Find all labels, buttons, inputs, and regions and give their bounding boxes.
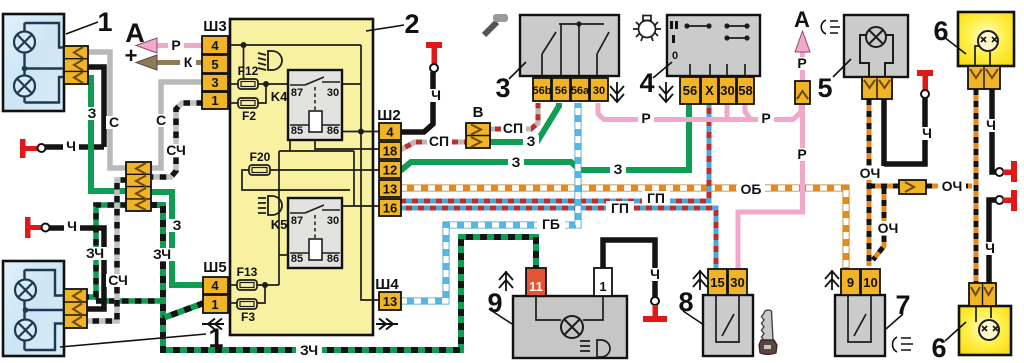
- svg-text:2: 2: [404, 9, 419, 39]
- wire label Z (to Sh5-4): [169, 217, 185, 233]
- lamp L1a (outer bulb, top-left block): [14, 32, 35, 53]
- wire: Ch black, ground G6 to lamp 6 bottom: [989, 200, 996, 283]
- wire: R pink spur from pin 58: [727, 104, 751, 120]
- wire label Z (long green, first): [508, 154, 524, 170]
- symbol: harness branch at ignition switch 8: [693, 270, 707, 290]
- wire label GB: [537, 216, 565, 232]
- wire label ZCh (bottom run): [296, 342, 322, 358]
- svg-text:30: 30: [593, 85, 605, 97]
- svg-text:1: 1: [211, 93, 218, 108]
- svg-text:87: 87: [291, 215, 303, 227]
- svg-text:16: 16: [383, 201, 397, 216]
- svg-text:10: 10: [863, 275, 877, 290]
- icon: ignition key: [759, 310, 777, 355]
- icon: side light symbol right of 7: [893, 337, 914, 352]
- wire: SCh gray-black, junction cell2 to bottom headlamp pin3: [87, 180, 127, 321]
- wire: Ch black, lamp 6 top to ground G5: [992, 89, 996, 172]
- wire: Z green, connector B to switch3 pin 56: [489, 103, 559, 142]
- connector: lamp 6 bottom 2-pin: [969, 283, 996, 306]
- svg-text:30: 30: [327, 215, 339, 227]
- wire label R (below connector): [794, 146, 810, 162]
- internal link: supply rail from pin Sh3-4: [228, 44, 361, 46]
- svg-text:Ч: Ч: [985, 240, 995, 256]
- node: lamp common point: [22, 66, 28, 72]
- symbol: harness branch at fog lamp 9: [499, 271, 513, 291]
- svg-text:Р: Р: [797, 55, 806, 71]
- connector Sh4 (pin 13): [379, 292, 401, 310]
- wire label C (right vertical): [153, 112, 169, 128]
- wire: Z green, Sh2-12 to light switch 4 pin 56: [400, 103, 689, 171]
- wire label Ch (fog lamp ground): [647, 266, 663, 282]
- svg-text:Ч: Ч: [922, 125, 932, 141]
- icon: column stalk lever: [484, 14, 508, 35]
- wire label R (pink bus left): [638, 110, 654, 126]
- svg-text:F3: F3: [241, 310, 255, 324]
- svg-text:13: 13: [383, 182, 397, 197]
- svg-text:30: 30: [720, 83, 734, 98]
- svg-text:18: 18: [383, 144, 397, 159]
- label 9 pointer: [489, 309, 512, 324]
- label 1 pointer (top block): [66, 22, 98, 34]
- connector 1 of fog lamp 9: [594, 268, 612, 296]
- svg-text:6: 6: [933, 16, 948, 46]
- marker lamp 5 body: [844, 15, 908, 77]
- svg-text:С: С: [156, 112, 166, 128]
- svg-text:1: 1: [599, 279, 606, 294]
- wire: F20 left loop down and across: [242, 170, 350, 190]
- wire: Sh5-4 to F13: [228, 284, 237, 286]
- svg-text:З: З: [614, 161, 623, 177]
- icon: high-beam headlamp symbol: [258, 196, 282, 215]
- svg-text:85: 85: [291, 253, 303, 265]
- relay K5: [271, 198, 342, 268]
- svg-text:СЧ: СЧ: [108, 272, 128, 288]
- wire: R pink arrow shaft up to A: [800, 48, 805, 82]
- wire: R pink, connector A down to ignition switch 8 pin 30: [738, 103, 803, 269]
- svg-text:12: 12: [383, 163, 397, 178]
- wire: Sh5-1 to F3: [228, 302, 237, 304]
- svg-text:13: 13: [383, 294, 397, 309]
- svg-text:ЗЧ: ЗЧ: [86, 245, 104, 261]
- wire: vertical rail to Sh2-4 and Sh4-13: [361, 45, 379, 300]
- wire: rail drop to fuse F12: [243, 45, 245, 80]
- fuse F13: [237, 265, 258, 290]
- ground G7 (fog lamp 9): [643, 297, 667, 322]
- wire: drop to K5-30 and Sh2-16: [341, 151, 379, 206]
- wire: OCh branch, junction row to single connector and lamp 6 riser: [869, 184, 972, 189]
- wire: R pink, switch3 pin30 to light switch4 pin30 and connector A: [598, 103, 801, 120]
- wire: OB orange-white, Sh2-13 to switch 7 pin 9: [400, 188, 846, 269]
- svg-text:F13: F13: [237, 265, 258, 279]
- connector: switch3 pins 56b,56,56a,30: [533, 78, 608, 101]
- svg-text:Р: Р: [171, 37, 180, 53]
- wire: K4 coil to Sh2-18: [315, 140, 379, 149]
- wire: K4-30 to vertical rail: [342, 83, 361, 85]
- arrow head up (pink): [795, 31, 810, 52]
- svg-text:6: 6: [931, 333, 946, 363]
- svg-text:ОЧ: ОЧ: [860, 165, 881, 181]
- switch unit 3 body: [520, 15, 619, 76]
- lamp 6 (bottom) body: [959, 306, 1011, 355]
- svg-text:Ч: Ч: [431, 87, 441, 103]
- icon: lamp with rays (lighting symbol): [633, 16, 661, 42]
- svg-text:5: 5: [817, 73, 832, 103]
- svg-text:Ч: Ч: [650, 266, 660, 282]
- svg-text:F12: F12: [238, 64, 259, 78]
- label 8 pointer: [683, 311, 704, 325]
- lamp bulb of 5: [866, 27, 886, 47]
- wire label Z (top lamp): [84, 105, 100, 121]
- wire: Sh3-3 to F12: [228, 83, 239, 85]
- wire: OCh orange-black, marker lamp 5 down to switch 7 pin 10: [867, 99, 872, 266]
- wire: GP red-blue, Sh2-16 to ignition switch 8 pin 15: [400, 208, 716, 269]
- mounting block 2 body: [230, 19, 373, 335]
- wire: Z green, junction cell3 to Sh5-4: [150, 192, 204, 285]
- fuse F2: [238, 98, 258, 123]
- svg-text:+: +: [125, 43, 138, 68]
- svg-text:К: К: [184, 54, 193, 70]
- wire: K4-85 drop and cross rail under relay: [279, 140, 354, 151]
- connector: single pin on pink wire A: [795, 81, 810, 104]
- svg-text:85: 85: [291, 125, 303, 137]
- node: dot at F13 junction: [262, 282, 268, 288]
- headlamp block 1 (top left): [3, 14, 64, 111]
- symbol: harness branch at switch 7: [825, 270, 839, 290]
- svg-text:56: 56: [555, 85, 567, 97]
- svg-text:30: 30: [730, 275, 744, 290]
- ground G3 (top middle, Sh2-4): [426, 42, 442, 72]
- svg-text:4: 4: [211, 38, 219, 53]
- wire label SP (left): [427, 133, 452, 149]
- wire label Ch (lamp6 bottom): [982, 240, 998, 256]
- wire: K brown arrow shaft to Sh3-5: [156, 60, 203, 65]
- fuse F12: [238, 64, 259, 89]
- svg-text:1: 1: [211, 297, 218, 312]
- wire: OCh short branch into pin 10: [873, 188, 884, 260]
- ignition switch 8 body: [703, 295, 753, 356]
- connector: lamp 6 top 2-pin: [968, 66, 1000, 89]
- svg-text:F20: F20: [250, 150, 271, 164]
- wire: Ch black, top headlamp to ground G1: [45, 67, 104, 147]
- wire: Ch black, marker lamp 5 to ground G4: [884, 98, 925, 164]
- wire: OCh vertical, lamp 6 top to lamp 6 bottom: [974, 89, 979, 283]
- label 1 pointer (bottom block): [60, 334, 206, 347]
- connector: single pin on OCh wire: [899, 180, 926, 194]
- svg-text:5: 5: [211, 57, 218, 72]
- svg-text:З: З: [173, 217, 182, 233]
- svg-text:56a: 56a: [571, 85, 590, 97]
- label 2 pointer line: [366, 25, 404, 31]
- svg-text:СП: СП: [429, 133, 449, 149]
- symbol: arrow at Sh5 (to harness): [202, 319, 224, 330]
- svg-text:Р: Р: [761, 110, 770, 126]
- wire label ZCh (left): [83, 245, 108, 261]
- wire: Sh3-1 to F2: [228, 102, 238, 104]
- ground G4 (comp5): [917, 70, 933, 98]
- svg-text:87: 87: [291, 87, 303, 99]
- wire: Z green, top headlamp to junction cell3: [88, 78, 127, 191]
- svg-text:86: 86: [327, 125, 339, 137]
- symbol: harness continuation at light switch 4: [659, 82, 673, 102]
- svg-text:СП: СП: [503, 120, 523, 136]
- wire: K4-85 rail down to fuse F13/F3 junction: [278, 151, 280, 285]
- wire: Ch black, Sh2-4 to top ground G3: [400, 72, 433, 132]
- symbol: harness continuation at switch 3 pin 30: [610, 82, 624, 102]
- svg-text:7: 7: [895, 290, 910, 320]
- svg-text:З: З: [88, 105, 97, 121]
- connector Sh3 (pins 4,5,3,1): [202, 36, 228, 109]
- wire: SCh gray-black, Sh3-1 down to junction cell2: [150, 103, 203, 177]
- svg-text:58: 58: [738, 83, 752, 98]
- svg-text:Р: Р: [641, 110, 650, 126]
- svg-text:Ч: Ч: [986, 117, 996, 133]
- wire label Ch (top ground): [63, 138, 79, 154]
- icon: fog light symbol inside 9: [580, 340, 610, 357]
- arrow head to A (pink): [136, 38, 157, 53]
- ground G1 (top-left): [20, 139, 46, 158]
- node: junction dot F12/F2: [263, 81, 269, 87]
- wire: C gray, junction cell1 to Sh3-3: [150, 82, 203, 168]
- wire: SP red-gray, connector B to switch3 pin 56b: [489, 103, 538, 129]
- connector: switch 7 pins 9,10: [841, 269, 880, 295]
- wire label OCh (branch to pin10): [875, 220, 901, 236]
- svg-text:4: 4: [386, 125, 394, 140]
- connector Sh2 (pins 4,18,12,13,16): [379, 123, 401, 216]
- svg-text:Ш2: Ш2: [377, 107, 400, 124]
- connector: 4-pin junction block: [126, 162, 151, 211]
- connector: light switch4 pins 56,X,30,58: [680, 77, 754, 104]
- wire: ZCh branch to Sh5 riser: [96, 298, 163, 304]
- connector: bottom headlamp 3-pin: [64, 289, 87, 328]
- wire: SP red-gray, Sh2-18 to connector B: [400, 142, 467, 150]
- wire label OCh (comp5 drop): [856, 165, 884, 181]
- label 5 pointer: [833, 59, 851, 77]
- svg-text:9: 9: [847, 275, 854, 290]
- connector: top headlamp 3-pin: [64, 46, 88, 84]
- lamp bulb of 9: [561, 316, 583, 338]
- wire: C gray, top headlamp to junction connector cell1: [88, 52, 127, 168]
- svg-text:ОЧ: ОЧ: [878, 220, 899, 236]
- label 7 pointer: [886, 314, 903, 329]
- wire label Ch (lamp6 top): [983, 117, 999, 133]
- svg-text:ОЧ: ОЧ: [942, 178, 963, 194]
- svg-text:СЧ: СЧ: [166, 142, 186, 158]
- lamp 6 (top) body: [958, 12, 1014, 66]
- ground G6 (right lower): [996, 190, 1018, 211]
- svg-text:Ч: Ч: [67, 218, 77, 234]
- lamp L2b (inner bulb, bottom-left block): [15, 320, 36, 341]
- wire: GP blue-red, Sh2-16 to light switch 4 pin X: [400, 103, 709, 201]
- svg-text:С: С: [109, 114, 119, 130]
- svg-text:З: З: [512, 154, 521, 170]
- svg-text:В: В: [473, 104, 484, 121]
- svg-text:4: 4: [639, 68, 654, 98]
- svg-text:Р: Р: [797, 146, 806, 162]
- svg-text:3: 3: [495, 73, 510, 103]
- svg-text:X: X: [705, 83, 714, 98]
- svg-text:15: 15: [710, 275, 724, 290]
- wire label SCh (upper): [164, 142, 189, 158]
- wire label ZCh (right): [150, 246, 175, 262]
- svg-text:K4: K4: [271, 89, 288, 104]
- wire label R (pink bus right): [758, 110, 774, 126]
- svg-text:3: 3: [211, 75, 218, 90]
- wire: ZCh green-black, junction cell4 to bottom headlamp pin1: [87, 205, 127, 297]
- svg-text:Ш4: Ш4: [375, 276, 399, 293]
- svg-text:ГБ: ГБ: [542, 216, 560, 232]
- wire label SCh (lower): [106, 272, 131, 288]
- svg-text:Ш3: Ш3: [203, 18, 226, 35]
- connector 11 of fog lamp 9: [526, 268, 546, 296]
- svg-text:11: 11: [529, 279, 543, 294]
- wire label R (arrow shaft): [794, 55, 810, 71]
- icon: low-beam headlamp symbol: [258, 51, 282, 70]
- svg-text:ЗЧ: ЗЧ: [300, 342, 318, 358]
- wire label Ch (Sh2-4 ground): [428, 87, 444, 103]
- wire label Z (long green, second): [610, 161, 626, 177]
- wire: K4-86 to Sh2-4: [342, 131, 379, 133]
- wire label C (left vertical): [106, 114, 122, 130]
- connector: marker lamp 5 2-pin: [862, 77, 892, 99]
- lamp L1b (inner bulb, top-left block): [14, 76, 35, 97]
- fuse F3: [237, 299, 257, 324]
- lamp bulb of 6 (top): [978, 31, 998, 51]
- wire: junction down to F2: [258, 84, 266, 103]
- svg-text:A: A: [794, 7, 810, 32]
- wire label GP (upper): [642, 190, 670, 206]
- symbol: arrow at Sh4 (to harness): [376, 319, 398, 330]
- label 4 pointer: [653, 62, 672, 78]
- wire: F20 right to Sh2-12: [270, 169, 379, 171]
- wire label K (to Sh3-5): [180, 54, 196, 70]
- wire: K5-85 to rail: [279, 254, 288, 256]
- wire: F13 junction links: [257, 285, 279, 303]
- svg-text:ГП: ГП: [647, 190, 665, 206]
- wire: R pink arrow shaft to Sh3-4: [156, 43, 203, 48]
- wire: GB light-blue-white, Sh4-13 to switch3 pin 56a: [400, 103, 578, 301]
- svg-text:4: 4: [211, 278, 219, 293]
- fuse F20: [249, 150, 271, 175]
- wire: Ch black, fog lamp 9 connector 1 to ground G7: [603, 240, 655, 297]
- svg-text:86: 86: [327, 253, 339, 265]
- connector: ignition switch pins 15,30: [708, 269, 747, 295]
- light switch 7 body: [835, 295, 885, 356]
- wire label Ch (bottom ground): [64, 218, 80, 234]
- connector B (2-pin): [466, 123, 490, 148]
- wire label Ch (comp5 ground leg): [919, 125, 935, 141]
- ground G5 (right upper): [996, 161, 1018, 182]
- wire: Ch black, ground G2 to bottom headlamp pin2: [46, 228, 104, 309]
- icon: parking-light symbol left of 5: [821, 20, 840, 34]
- svg-text:ЗЧ: ЗЧ: [153, 246, 171, 262]
- wire label R (to Sh3-4): [168, 37, 184, 53]
- svg-text:30: 30: [327, 87, 339, 99]
- wire: F12 to relay K4 pin 87: [258, 83, 289, 85]
- node: lamp common point (bottom block): [23, 307, 29, 313]
- svg-text:ГП: ГП: [611, 200, 629, 216]
- lamp bulb of 6 (bottom): [979, 320, 999, 340]
- relay K4: [271, 70, 342, 140]
- arrow head (brown): [136, 55, 157, 70]
- label 6 pointer (bottom): [945, 322, 966, 341]
- svg-text:56: 56: [683, 83, 697, 98]
- svg-text:Ш5: Ш5: [203, 259, 226, 276]
- light switch 4 body: [667, 15, 760, 76]
- wire label Z (connector B to 56): [523, 133, 539, 149]
- svg-text:56b: 56b: [533, 85, 552, 97]
- svg-text:З: З: [527, 133, 536, 149]
- svg-text:ОБ: ОБ: [741, 181, 762, 197]
- label 3 pointer: [509, 62, 526, 79]
- node: dot at Sh2-4 branch: [358, 129, 364, 135]
- wire label GP (lower): [606, 200, 634, 216]
- headlamp block 1 (bottom left): [3, 261, 64, 356]
- wire: ZCh diagonal from Sh5-1: [163, 303, 204, 318]
- ground G2 (bottom-left): [25, 217, 50, 238]
- label 6 pointer (top): [944, 37, 966, 54]
- svg-text:8: 8: [678, 287, 693, 317]
- connector Sh5 (pins 4,1): [203, 277, 228, 313]
- lamp L2a (outer bulb, bottom-left block): [15, 280, 36, 301]
- node: junction dot on rail: [241, 42, 247, 48]
- svg-text:0: 0: [672, 50, 678, 62]
- wire label OCh (right): [938, 178, 966, 194]
- wire label OB: [737, 181, 765, 197]
- svg-text:F2: F2: [242, 109, 256, 123]
- svg-text:Ч: Ч: [66, 138, 76, 154]
- fog lamp 9 body: [513, 296, 627, 358]
- wire: ZCh green-black, junction cell4 right via Sh5-1 to fog lamp 9 connector 11: [150, 205, 536, 350]
- svg-text:9: 9: [487, 288, 502, 318]
- wire label SP (right): [501, 120, 526, 136]
- svg-text:1: 1: [97, 7, 112, 37]
